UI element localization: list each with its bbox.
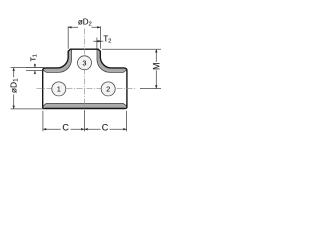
svg-text:1: 1 <box>57 86 61 93</box>
svg-text:øD2: øD2 <box>78 18 92 28</box>
dim oD2 line <box>68 26 100 28</box>
svg-text:øD1: øD1 <box>9 78 20 93</box>
inner bore outline <box>43 50 127 107</box>
dim oD1 extension lines <box>11 68 45 109</box>
dim oD2 arrow right <box>97 26 100 28</box>
dim M extension lines <box>102 49 161 88</box>
centerline vertical <box>83 29 85 112</box>
dim T1 line <box>34 64 36 75</box>
dim T2 extension line <box>96 38 98 49</box>
dim T2 arrows <box>96 40 102 42</box>
dim C extension lines <box>43 111 127 132</box>
svg-text:M: M <box>151 62 161 70</box>
dim M line <box>155 49 157 88</box>
dim oD1 line <box>13 68 15 109</box>
svg-text:T1: T1 <box>30 54 38 61</box>
dim T2 line <box>93 40 103 42</box>
svg-text:2: 2 <box>106 86 110 93</box>
tee fitting cross-section wall (hatched area) <box>43 49 127 108</box>
balloon 3 <box>78 56 92 70</box>
dim C line <box>43 128 127 130</box>
dim oD1 arrows <box>13 68 15 109</box>
bottom edge emphasis <box>45 107 124 109</box>
dim T1 extension lines <box>26 68 45 71</box>
svg-text:T2: T2 <box>103 35 111 45</box>
dim oD2 extension line left <box>67 26 69 49</box>
svg-text:C: C <box>102 123 109 133</box>
dim M arrows <box>155 49 157 88</box>
svg-text:3: 3 <box>83 60 87 67</box>
dim T1 arrows <box>34 64 36 73</box>
balloon 2 <box>101 82 115 96</box>
dim oD2 extension line right <box>100 26 102 49</box>
svg-text:C: C <box>62 123 69 133</box>
dim C arrows <box>43 128 127 130</box>
balloon 1 <box>52 82 66 96</box>
dim oD2 arrow left <box>68 26 71 28</box>
outer outline of tee <box>43 49 127 108</box>
centerline horizontal <box>37 88 137 90</box>
